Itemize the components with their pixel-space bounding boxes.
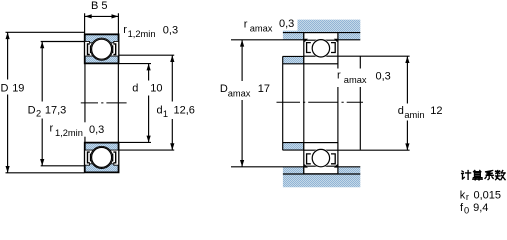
svg-text:amax: amax xyxy=(344,75,367,85)
svg-text:amax: amax xyxy=(228,88,251,98)
svg-text:0: 0 xyxy=(464,206,469,216)
svg-text:r: r xyxy=(50,123,54,135)
svg-text:1: 1 xyxy=(163,109,168,119)
svg-text:9,4: 9,4 xyxy=(473,202,488,214)
svg-text:k: k xyxy=(460,189,466,201)
svg-text:19: 19 xyxy=(12,83,24,95)
svg-text:r: r xyxy=(466,192,469,202)
svg-text:0,3: 0,3 xyxy=(279,18,294,30)
svg-text:D: D xyxy=(1,83,9,95)
svg-text:0,3: 0,3 xyxy=(163,24,178,36)
svg-text:r: r xyxy=(244,19,248,31)
svg-text:r: r xyxy=(337,70,341,82)
svg-text:12: 12 xyxy=(430,105,442,117)
svg-text:0,3: 0,3 xyxy=(89,124,104,136)
svg-text:d: d xyxy=(132,82,138,94)
svg-text:17: 17 xyxy=(258,83,270,95)
svg-text:r: r xyxy=(123,24,127,36)
svg-text:10: 10 xyxy=(150,82,162,94)
svg-text:B 5: B 5 xyxy=(91,0,108,12)
svg-text:0,015: 0,015 xyxy=(474,189,502,201)
svg-text:17,3: 17,3 xyxy=(45,104,66,116)
svg-text:d: d xyxy=(157,105,163,117)
svg-text:D: D xyxy=(28,104,36,116)
svg-text:d: d xyxy=(398,105,404,117)
svg-text:12,6: 12,6 xyxy=(174,105,195,117)
svg-text:amin: amin xyxy=(404,110,424,120)
svg-text:2: 2 xyxy=(36,109,41,119)
svg-text:0,3: 0,3 xyxy=(376,71,391,83)
svg-text:D: D xyxy=(220,83,228,95)
svg-text:1,2min: 1,2min xyxy=(55,128,83,138)
svg-text:1,2min: 1,2min xyxy=(128,29,156,39)
svg-text:amax: amax xyxy=(250,24,273,34)
